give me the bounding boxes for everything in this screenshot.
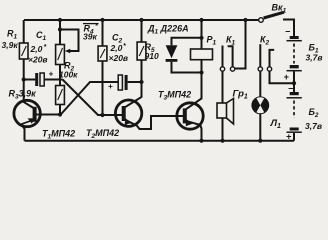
wire R3 bottom to T1 base node [59, 105, 61, 115]
wire R4 top lead [102, 20, 104, 46]
wire T1 emitter to bottom rail [21, 124, 24, 141]
node top-rail K1 branch [243, 18, 247, 22]
node diode bottom junction [199, 70, 203, 74]
svg-text:−: − [285, 27, 291, 37]
wire switch to battery [283, 20, 294, 37]
lamp L1 [252, 97, 268, 113]
wire T3 emitter to bottom rail [186, 121, 202, 141]
svg-text:+: + [286, 132, 292, 142]
wire T3 collector [186, 73, 202, 110]
relay coil P1 [191, 49, 213, 60]
transistor T2 [115, 100, 141, 126]
battery B2 [290, 92, 299, 95]
wire T2 collector [125, 82, 142, 107]
resistor R5 [137, 42, 146, 60]
svg-text:×20в: ×20в [109, 53, 129, 63]
svg-text:2,0: 2,0 [30, 44, 43, 54]
capacitor C1 [24, 79, 36, 81]
wire R2 rheostat loop [60, 30, 79, 52]
wire R5 bottom to node [141, 60, 143, 82]
diode D1 D226A [166, 45, 178, 58]
wire R5 top lead [141, 20, 143, 42]
svg-text:+: + [49, 70, 54, 79]
svg-text:2,0: 2,0 [110, 43, 123, 53]
wire cross-couple diagonal A to T2 base [63, 80, 123, 116]
svg-text:100к: 100к [59, 70, 78, 80]
svg-text:3,7в: 3,7в [306, 53, 323, 63]
svg-text:*: * [123, 43, 126, 50]
svg-text:39к: 39к [83, 32, 97, 42]
wire speaker top lead [222, 71, 224, 103]
wire R2 to R3 [59, 65, 61, 86]
wire cross-couple diagonal B to C2 [61, 82, 119, 115]
wire K2 right to battery midpoint [270, 71, 295, 83]
svg-text:+: + [284, 72, 290, 82]
wire K1 riser [235, 20, 246, 69]
node lamp on rail [258, 139, 262, 143]
wire B1 to midpoint [293, 72, 295, 93]
wire top rail [24, 19, 259, 21]
node junction R1/C1/T1 [22, 77, 26, 81]
node T2 base junction [100, 113, 104, 117]
capacitor C2 [118, 75, 122, 90]
wire lamp bottom lead [259, 113, 261, 140]
node top-rail relay branch [199, 18, 203, 22]
svg-text:+: + [108, 82, 113, 91]
svg-text:3,9к: 3,9к [2, 40, 19, 50]
wire bottom rail [25, 140, 295, 142]
node T1 base junction [58, 112, 62, 116]
switch Vk1 [259, 18, 264, 23]
loudspeaker Gr1 [217, 103, 227, 118]
resistor R4 [98, 46, 107, 61]
wire R2 top lead [59, 20, 61, 45]
wire relay bottom lead [201, 60, 203, 73]
wire relay top lead [201, 20, 203, 49]
resistor R1 [19, 43, 28, 59]
contact K1 [222, 46, 224, 67]
node T3 emitter on rail [199, 139, 203, 143]
node diode top junction [199, 36, 203, 40]
node top-rail R5 [139, 18, 143, 22]
wire diode bottom [172, 62, 202, 73]
wire C2 right to node [128, 81, 142, 83]
node R2 wiper tap [58, 27, 62, 31]
node top-rail R4 [100, 18, 104, 22]
wire speaker bottom lead [222, 118, 224, 141]
potentiometer R2 wiper arrow [65, 49, 71, 53]
svg-text:−: − [288, 84, 294, 94]
wire R4 bottom to T2 base node [102, 61, 104, 115]
node battery midpoint [292, 81, 296, 85]
wire lamp top lead [259, 71, 261, 97]
wire C1 to diagonal [44, 79, 62, 81]
node top-rail R2 [58, 18, 62, 22]
transistor T3 [177, 103, 203, 129]
transistor T1 [14, 100, 40, 126]
svg-text:*: * [44, 44, 47, 51]
svg-text:3,7в: 3,7в [305, 121, 322, 131]
battery B1 [290, 36, 299, 39]
wire T1 base lead [35, 114, 61, 116]
potentiometer R2 [56, 45, 65, 65]
wire diode top [172, 38, 202, 46]
wire R1 top lead from rail corner [23, 20, 25, 43]
wire R1 bottom to T1 collector [24, 59, 35, 109]
svg-text:×20в: ×20в [28, 55, 48, 65]
svg-text:910: 910 [145, 51, 159, 61]
label R4 with select bar [83, 23, 99, 25]
contact K2 [259, 44, 261, 66]
svg-text:*: * [95, 23, 98, 30]
node speaker on rail [220, 139, 224, 143]
wire T2 emitter to T3 base [125, 116, 185, 129]
wire B2 to bottom rail [293, 133, 295, 141]
node C2/R5/T2 collector [139, 80, 143, 84]
resistor R3 [56, 86, 65, 105]
